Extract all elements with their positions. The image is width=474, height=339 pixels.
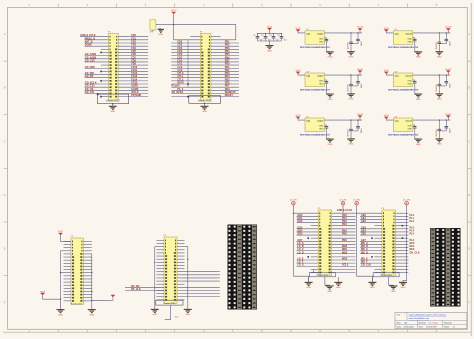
svg-text:MCP1825S-3302E/DB REG 3V3: MCP1825S-3302E/DB REG 3V3 [300,134,331,136]
P6 name box [373,273,399,277]
wire U1 VOUT [325,32,363,33]
svg-text:GND: GND [349,57,354,59]
regulator U5 MCP1825 [305,116,325,131]
power flag at left [40,291,61,300]
wire cap bank bottom bus [258,41,282,46]
wire P3 right rail [91,254,92,310]
svg-text:A: A [468,32,470,36]
svg-text:GD5: GD5 [297,233,303,236]
svg-text:B: B [468,86,470,90]
svg-text:GND: GND [319,126,324,128]
svg-text:GND: GND [319,129,324,131]
wires P3 pin stubs [64,241,92,300]
wires P4 pin stubs [157,240,185,299]
wires P2 right nets [211,37,239,97]
ground U2 [415,41,423,59]
power flag VCC5 U3 [295,70,300,74]
P4 name box [156,300,183,305]
regulator U1 MCP1825 [305,29,325,44]
wire SD_DO [125,285,164,288]
svg-text:10uF/16V: 10uF/16V [436,128,438,136]
svg-text:D: D [4,193,6,197]
power flag VCC12 U5 [357,114,363,120]
svg-text:GND: GND [437,99,442,101]
svg-text:V1.1 2002: V1.1 2002 [429,322,439,324]
svg-text:GE5: GE5 [361,233,367,236]
wire VCC5 to U3 VIN [298,73,305,76]
svg-text:GND: GND [328,99,333,101]
svg-text:VIN: VIN [306,76,310,78]
connector P3 (Header 20x2) [71,236,84,304]
wire VCC5 to U4 VIN [386,73,393,76]
ground U3 [326,83,334,101]
capacitor C bypass U1 [325,39,328,40]
capacitor C2 100nF [261,34,270,42]
svg-text:VIN: VIN [395,121,399,123]
svg-text:GND: GND [416,57,421,59]
P2 name box [189,96,221,104]
wire P6 center gnd [389,277,394,286]
svg-text:E: E [468,247,470,251]
power flag VCC5 U5 [295,115,300,119]
capacitor C out-a U1 [348,33,353,52]
svg-text:GND: GND [158,34,163,36]
svg-text:PKTEND: PKTEND [131,94,141,97]
svg-text:GD_CSI: GD_CSI [85,91,94,94]
svg-text:MD_D: MD_D [361,251,368,254]
ground below P1 [109,103,117,113]
ground U4 [415,83,423,101]
power flag VCC25 U4 [445,69,451,75]
svg-text:GND: GND [319,81,324,83]
svg-text:GND: GND [328,144,333,146]
svg-text:Sheet: Sheet [444,326,450,329]
svg-text:GND: GND [185,314,190,316]
capacitor C out-b U5 [351,120,363,133]
svg-text:GND: GND [416,144,421,146]
svg-text:GND: GND [327,291,332,293]
ground U5 output [347,139,355,146]
svg-text:C4: C4 [277,35,279,37]
regulator U2 MCP1825 [393,29,413,44]
supply circle 42_CH1 [337,199,353,213]
svg-text:VIN: VIN [306,121,310,123]
ground P4 right [184,309,192,316]
svg-text:Header 20X2: Header 20X2 [71,303,84,305]
connector P2 (Header 20x2) [200,32,211,101]
svg-text:Header 20X2: Header 20X2 [106,99,120,102]
svg-text:2-Feb-2002: 2-Feb-2002 [404,327,415,329]
svg-text:Header 20X2: Header 20X2 [198,99,212,102]
wire JP1 to VCC3 node [156,24,175,25]
svg-text:C: C [4,139,6,143]
svg-text:10uF/16V: 10uF/16V [436,83,438,91]
svg-text:MCP1825S-3302E/DB REG 3V3: MCP1825S-3302E/DB REG 3V3 [388,134,419,136]
svg-text:PK6: PK6 [342,239,347,242]
svg-text:GND: GND [202,111,207,113]
ground at JP1 [158,28,164,36]
power flag VCC25 U3 [357,69,363,75]
svg-text:DONE: DONE [85,44,92,47]
svg-text:Header 20X2: Header 20X2 [164,303,177,305]
wire VCC5 to U6 VIN [386,118,393,121]
svg-text:GND: GND [407,84,412,86]
svg-text:VOUT: VOUT [406,76,413,78]
svg-text:GND: GND [306,287,311,289]
svg-text:GND: GND [349,99,354,101]
svg-text:MCP1825S-3302E/DB REG 3V3: MCP1825S-3302E/DB REG 3V3 [300,47,331,49]
capacitor C out-a U4 [436,75,441,94]
svg-text:GND: GND [401,287,406,289]
svg-text:Cypress/BlackBo2 Cypress FX2 I: Cypress/BlackBo2 Cypress FX2 Interface [409,314,448,317]
wire VCC5 to U5 VIN [298,118,305,121]
connector P6 (Header 20x2) [382,208,396,275]
svg-text:10uF/16V: 10uF/16V [348,41,350,49]
capacitor C bypass U2 [413,39,416,40]
svg-text:VIN: VIN [395,34,399,36]
svg-text:100nF: 100nF [361,128,363,133]
capacitor C out-b U6 [439,120,451,133]
svg-text:GND: GND [328,57,333,59]
svg-text:GD_RD5: GD_RD5 [85,66,96,69]
wire cap bank top bus [257,31,282,35]
wire U5 GND pin [325,125,327,126]
svg-text:GD_BCK0: GD_BCK0 [172,91,184,94]
title block [395,312,467,328]
svg-text:GND: GND [370,287,375,289]
ground below P2 [201,103,209,114]
svg-text:GND: GND [336,287,341,289]
svg-text:MCP1825S-3302E/DB REG 3V3: MCP1825S-3302E/DB REG 3V3 [300,89,331,91]
capacitor C bypass U3 [325,82,328,83]
svg-text:VOUT: VOUT [406,34,413,36]
svg-text:GD_CLK: GD_CLK [410,251,420,254]
svg-text:LD_D: LD_D [297,251,304,254]
svg-text:2:34:56 PM: 2:34:56 PM [426,327,437,329]
capacitor C1 100nF [253,34,262,42]
ground U6 [415,128,423,146]
svg-text:PK3: PK3 [342,223,347,226]
wire VCC5 to U2 VIN [386,31,393,34]
svg-text:GND: GND [407,41,412,43]
svg-text:Revision:: Revision: [444,323,453,325]
ground U1 [326,41,334,59]
wire U5 VOUT [325,119,363,120]
svg-text:GE2: GE2 [361,220,367,223]
capacitor C bypass U5 [325,127,328,128]
capacitor C out-b U3 [351,75,363,88]
svg-text:GND: GND [349,144,354,146]
svg-text:104: 104 [284,39,287,41]
wire P6 left gnd [371,277,373,282]
ground P3 left [57,310,65,317]
svg-text:GND: GND [407,129,412,131]
wire P4 left rail [154,247,156,310]
wire U6 VOUT [413,119,451,120]
svg-text:GND: GND [319,84,324,86]
svg-text:RESET: RESET [225,94,234,97]
ground P4 left [151,309,159,316]
wire U3 VOUT [325,74,363,75]
svg-text:*: * [404,313,405,316]
svg-text:Number:: Number: [419,323,427,325]
wire 42_CH3 rail [402,205,407,282]
ground U4 output [436,94,444,101]
svg-text:LD_G: LD_G [297,264,304,267]
svg-text:SCL0: SCL0 [342,264,349,267]
supply circle 42_CH3 [403,199,410,205]
svg-text:D: D [468,193,470,197]
capacitor C bypass U6 [413,127,416,128]
capacitor C out-a U6 [436,120,441,139]
svg-text:C3: C3 [269,35,271,37]
svg-text:MD3: MD3 [342,258,348,261]
power flag VCC3 [171,10,177,14]
wire U3 GND pin [325,80,327,81]
capacitor C out-a U2 [436,33,441,52]
svg-text:VOUT: VOUT [317,121,324,123]
wire VCC3 to P2 pin3 [174,25,201,40]
ground U2 output [436,52,444,59]
ground P6 right [399,282,407,289]
svg-text:MCP1825S-3302E/DB REG 3V3: MCP1825S-3302E/DB REG 3V3 [388,47,419,49]
svg-text:100nF: 100nF [450,41,452,46]
wire VCC5 to U1 VIN [298,31,305,34]
svg-text:PL5: PL5 [410,233,415,236]
ground U1 output [347,52,355,59]
svg-text:SD_CLK: SD_CLK [131,288,141,291]
module J8 connector footprint [430,228,461,307]
supply circle 42_CH2 [353,199,382,214]
svg-text:GND: GND [267,50,272,52]
ground P5 right [334,282,342,289]
power flag VCC33 U2 [445,27,451,33]
svg-text:GND: GND [152,314,157,316]
svg-text:100nF: 100nF [361,41,363,46]
wire VCC3 to P2 pin4 [174,25,236,40]
wires P5 left nets [297,214,319,273]
svg-text:Header 20X2: Header 20X2 [316,275,329,277]
capacitor C out-a U3 [348,75,353,94]
svg-text:10uF/16V: 10uF/16V [436,41,438,49]
svg-text:GND: GND [89,314,94,316]
connector P1 (Header 20x2) [108,32,118,101]
capacitor C3 100nF [269,34,278,42]
ground P6 left [368,282,376,289]
ground U3 output [347,94,355,101]
wire P6 left gnd rail [357,205,373,282]
P1 name box [97,93,129,103]
wire U1 GND pin [325,38,327,39]
wire P5 left gnd rail [293,205,308,282]
ground P5 left [305,282,313,289]
power flag VCC3 at P3 [58,231,71,241]
power flag VCC5 U2 [384,28,389,32]
wire U4 VOUT [413,74,451,75]
svg-text:C: C [468,139,470,143]
svg-text:PL2: PL2 [410,220,415,223]
capacitor C out-a U5 [348,120,353,139]
svg-text:GND: GND [58,314,63,316]
svg-text:GD_RD: GD_RD [85,75,94,78]
svg-text:GND: GND [407,38,412,40]
svg-text:A: A [4,32,6,36]
regulator U3 MCP1825 [305,71,325,86]
svg-text:GD_CLK: GD_CLK [361,264,371,267]
svg-text:B: B [4,86,6,90]
svg-text:GND: GND [319,41,324,43]
svg-text:E: E [4,247,6,251]
power flag VCC5 U6 [384,115,389,119]
svg-text:VOUT: VOUT [317,76,324,78]
svg-text:JP1: JP1 [150,32,153,34]
wires P5 right nets [332,213,356,272]
svg-text:VOUT: VOUT [317,34,324,36]
wire P5 center gnd [325,277,330,286]
svg-text:100nF: 100nF [361,83,363,88]
svg-text:MCP1825S-3302E/DB REG 3V3: MCP1825S-3302E/DB REG 3V3 [388,89,419,91]
wires P1 right nets FD bus [118,34,148,97]
svg-text:C2: C2 [261,35,263,37]
capacitor C bypass U4 [413,82,416,83]
svg-text:MD2: MD2 [342,251,348,254]
ground U5 [326,128,334,146]
svg-text:PK5: PK5 [342,233,347,236]
bus line P2 left [187,40,189,98]
ground P6 center [389,286,397,293]
svg-text:10uF/16V: 10uF/16V [348,83,350,91]
wire U6 GND pin [413,125,415,126]
wire U2 VOUT [413,32,451,33]
svg-text:GND: GND [319,38,324,40]
wire P5 right gnd [337,277,339,282]
power flag VCC3 cap bank [267,26,272,30]
power flag VCC33 U1 [357,27,363,33]
connector P4 (Header 20x2) [164,235,177,303]
svg-text:GND: GND [110,111,115,113]
svg-text:C1: C1 [253,35,255,37]
power flag VCC12 U6 [445,114,451,120]
wires P6 left nets [360,214,382,273]
svg-text:Time:: Time: [419,327,424,329]
wire VCC3 vertical [173,15,175,25]
regulator U4 MCP1825 [393,71,413,86]
svg-text:100nF: 100nF [450,128,452,133]
capacitor C4 100nF [277,34,286,42]
wire P3 to VCC arrow [91,295,115,301]
ground U6 output [436,139,444,146]
capacitor C out-b U4 [439,75,451,88]
power flag VCC5 U1 [295,28,300,32]
module J7 connector footprint [228,225,258,310]
ground P3 right [88,310,96,317]
ground P5 center [326,286,334,293]
svg-text:www.CircuitMaker.com: www.CircuitMaker.com [409,317,430,320]
wire SD_CLK [125,288,164,291]
svg-text:GND: GND [407,81,412,83]
svg-text:Header 20X2: Header 20X2 [380,275,393,277]
wire P4 right rail [185,247,189,310]
wire P3 left rail [60,251,64,310]
wires P4 data lines to module [177,272,220,297]
capacitor C out-b U2 [439,33,451,46]
svg-text:100nF: 100nF [450,83,452,88]
capacitor C out-b U1 [351,33,363,46]
jumper JP1 [150,20,156,34]
wires P1 left nets [80,34,109,97]
svg-text:GND: GND [437,57,442,59]
ground cap bank [266,46,274,53]
regulator U6 MCP1825 [393,116,413,131]
wire U4 GND pin [413,80,415,81]
svg-text:GND: GND [416,99,421,101]
svg-text:GND: GND [407,126,412,128]
svg-text:10uF/16V: 10uF/16V [348,128,350,136]
P5 name box [309,273,335,277]
svg-text:GND: GND [391,291,396,293]
connector P5 (Header 20x2) [318,208,332,275]
wire P4 box down [165,305,180,319]
svg-text:GND: GND [437,144,442,146]
svg-text:GND & CCLK: GND & CCLK [337,209,353,212]
wire U2 GND pin [413,38,415,39]
svg-text:VIN: VIN [395,76,399,78]
wires P6 right nets [396,213,420,272]
svg-text:VIN: VIN [306,34,310,36]
supply circle 42_CH0 [290,199,318,214]
wire P5 left gnd [309,270,314,282]
svg-text:GD_CS0: GD_CS0 [85,59,95,62]
svg-text:Date:: Date: [397,326,402,329]
wires P2 left nets [171,37,200,97]
svg-text:VOUT: VOUT [406,121,413,123]
power flag VCC5 U4 [384,70,389,74]
svg-text:GD2: GD2 [297,220,303,223]
